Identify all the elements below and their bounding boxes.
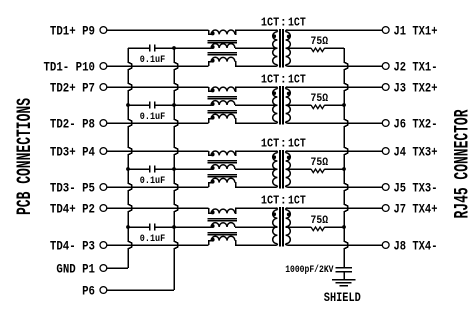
svg-text:75Ω: 75Ω (311, 36, 329, 48)
svg-text:1CT: 1CT (288, 136, 306, 150)
svg-text:0.1uF: 0.1uF (140, 54, 165, 66)
svg-text:J5 TX3-: J5 TX3- (394, 180, 438, 195)
svg-text:0.1uF: 0.1uF (140, 233, 165, 245)
svg-text:J1 TX1+: J1 TX1+ (394, 23, 438, 38)
svg-text:J2 TX1-: J2 TX1- (394, 59, 438, 74)
svg-text:RJ45 CONNECTOR: RJ45 CONNECTOR (452, 110, 472, 219)
svg-text::: : (280, 136, 287, 150)
svg-text:1CT: 1CT (261, 72, 279, 86)
svg-text:TD1+ P9: TD1+ P9 (50, 23, 95, 38)
svg-text:J6 TX2-: J6 TX2- (394, 116, 438, 131)
svg-text:75Ω: 75Ω (311, 157, 329, 169)
svg-text:TD1- P10: TD1- P10 (44, 59, 96, 74)
svg-text:J8 TX4-: J8 TX4- (394, 238, 438, 253)
svg-text::: : (280, 193, 287, 207)
svg-text:TD4- P3: TD4- P3 (50, 238, 95, 253)
svg-text:SHIELD: SHIELD (324, 290, 361, 305)
svg-text::: : (280, 15, 287, 29)
svg-text:J7 TX4+: J7 TX4+ (394, 201, 438, 216)
svg-text:0.1uF: 0.1uF (140, 111, 165, 123)
svg-text:1CT: 1CT (261, 136, 279, 150)
svg-text:75Ω: 75Ω (311, 93, 329, 105)
svg-text:1000pF/2KV: 1000pF/2KV (285, 264, 334, 276)
svg-text:1CT: 1CT (261, 193, 279, 207)
svg-text::: : (280, 72, 287, 86)
svg-text:J3 TX2+: J3 TX2+ (394, 80, 438, 95)
svg-text:TD3+ P4: TD3+ P4 (50, 144, 95, 159)
svg-text:TD3- P5: TD3- P5 (50, 180, 95, 195)
svg-text:1CT: 1CT (288, 193, 306, 207)
svg-text:GND P1: GND P1 (56, 261, 95, 276)
svg-text:TD2+ P7: TD2+ P7 (50, 80, 95, 95)
svg-text:75Ω: 75Ω (311, 215, 329, 227)
svg-text:1CT: 1CT (261, 15, 279, 29)
svg-text:PCB CONNECTIONS: PCB CONNECTIONS (14, 98, 37, 215)
svg-text:1CT: 1CT (288, 72, 306, 86)
svg-text:TD4+ P2: TD4+ P2 (50, 201, 95, 216)
svg-text:0.1uF: 0.1uF (140, 175, 165, 187)
svg-text:1CT: 1CT (288, 15, 306, 29)
svg-text:TD2- P8: TD2- P8 (50, 116, 95, 131)
svg-text:P6: P6 (82, 283, 95, 298)
svg-text:J4 TX3+: J4 TX3+ (394, 144, 438, 159)
